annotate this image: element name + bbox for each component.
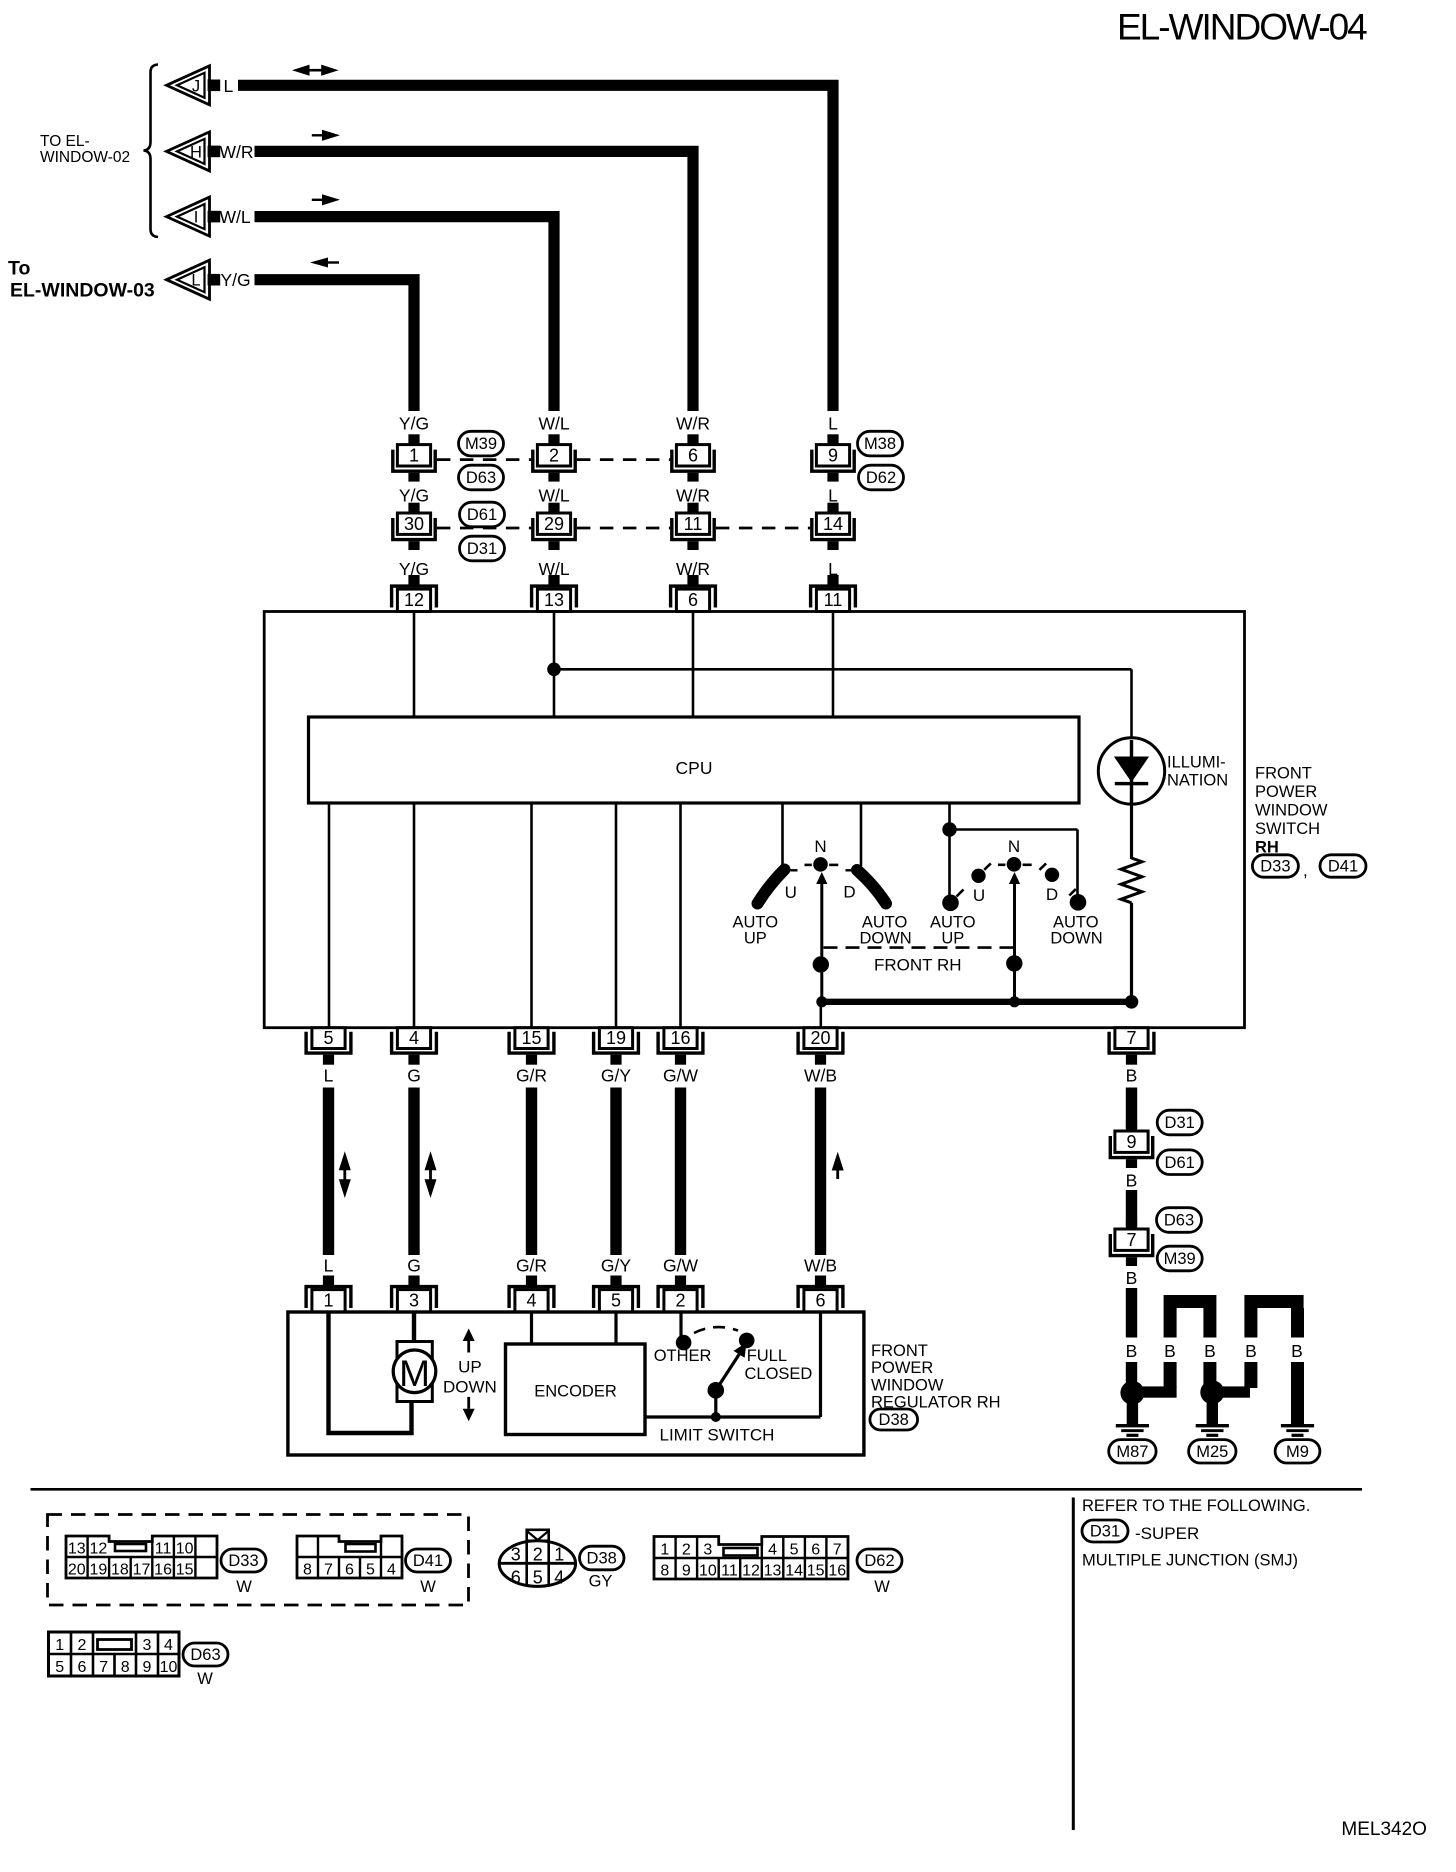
connector pin 6 at switch box top [687, 575, 698, 585]
switch1 blade ticks [791, 869, 798, 871]
wire CPU to pin4 [413, 803, 416, 1028]
double arrow on wire L [292, 65, 310, 76]
connector oval D62 (footer) [857, 1549, 902, 1572]
connector pin 5 at switch box bottom [306, 1032, 351, 1053]
svg-text:EL-WINDOW-04: EL-WINDOW-04 [1117, 7, 1367, 48]
down arrow (motor) [463, 1409, 475, 1422]
svg-text:NATION: NATION [1167, 772, 1228, 790]
svg-text:L: L [224, 76, 234, 96]
connector oval D31 [460, 536, 505, 561]
svg-text:5: 5 [533, 1568, 543, 1588]
wire CPU to switch1 D blade [860, 803, 863, 866]
switch2 U contact [971, 869, 985, 883]
svg-text:N: N [814, 837, 826, 856]
CPU U1 [309, 717, 1080, 803]
svg-text:B: B [1126, 1341, 1138, 1361]
connector oval D63 (B chain) [1157, 1208, 1202, 1233]
svg-text:15: 15 [521, 1028, 541, 1048]
connector triangle I [167, 197, 210, 236]
wiper bus line [819, 999, 1132, 1005]
switch2 wiper arrow [1009, 872, 1020, 884]
svg-text:W/L: W/L [538, 414, 569, 434]
svg-text:6: 6 [345, 1562, 354, 1579]
switch1 N contact [813, 857, 828, 872]
connector pin 9 (D31/D61) [1126, 1121, 1137, 1131]
svg-text:1: 1 [323, 1291, 333, 1311]
switch1 wiper junction [813, 956, 829, 972]
svg-text:UP: UP [458, 1358, 482, 1377]
connector pin 6 row A col 2 [687, 434, 698, 444]
switch2 D contact [1045, 868, 1059, 882]
node bus-wiper1 [816, 996, 827, 1007]
svg-text:UP: UP [744, 930, 767, 948]
svg-text:L: L [324, 1256, 334, 1276]
connector pin 13 at switch box top [548, 575, 559, 585]
wire branch to illumination [554, 668, 1132, 671]
svg-text:9: 9 [682, 1563, 691, 1580]
node bus-wiper2 [1009, 996, 1020, 1007]
svg-text:FRONT: FRONT [1255, 765, 1312, 783]
svg-text:D41: D41 [1328, 858, 1358, 876]
wire L switch to regulator [323, 1088, 334, 1256]
connector oval D38 (footer) [580, 1546, 625, 1570]
wire CPU to pin5 [328, 803, 331, 1028]
limit switch dashed arc [694, 1327, 738, 1333]
wire W/B switch to regulator [815, 1088, 826, 1256]
svg-text:14: 14 [785, 1563, 803, 1580]
svg-text:DOWN: DOWN [443, 1378, 497, 1397]
wire pin11 to CPU [832, 613, 835, 717]
connector pin 15 at switch box bottom [509, 1032, 554, 1053]
wire CPU to pin19 [615, 803, 618, 1028]
svg-text:4: 4 [768, 1542, 777, 1559]
connector oval M38 [858, 431, 903, 456]
svg-text:2: 2 [78, 1637, 87, 1654]
svg-text:M39: M39 [1164, 1250, 1196, 1268]
wire G/W switch to regulator [675, 1088, 686, 1256]
connector D38 (round) [527, 1530, 549, 1541]
svg-text:G/Y: G/Y [601, 1256, 631, 1276]
connector pin 7 at switch box bottom [1109, 1032, 1154, 1053]
connector oval D41 [1320, 855, 1366, 877]
switch2 wiper junction [1006, 955, 1022, 971]
wire G/R switch to regulator [526, 1088, 537, 1256]
encoder box [506, 1344, 646, 1435]
connector pin 2 row A col 1 [548, 434, 559, 444]
connector pin 20 at switch box bottom [798, 1032, 843, 1053]
svg-text:J: J [192, 77, 200, 95]
wire switch2 feed to U [948, 830, 951, 897]
svg-text:6: 6 [78, 1659, 87, 1676]
svg-text:11: 11 [155, 1541, 172, 1558]
node bus-resistor [1125, 995, 1139, 1009]
svg-text:G: G [407, 1066, 421, 1086]
svg-text:D31: D31 [1165, 1114, 1195, 1132]
wire G/Y switch to regulator [610, 1088, 621, 1256]
limit switch wiper [708, 1382, 725, 1399]
connector table D63 [49, 1632, 180, 1676]
ground junction node M25 [1200, 1380, 1224, 1404]
svg-text:OTHER: OTHER [654, 1347, 712, 1365]
dashed connector link row B 30-29 [437, 527, 531, 530]
up arrow (motor) [463, 1329, 475, 1342]
connector pin 6 at regulator top [815, 1276, 826, 1286]
front power window switch RH box [264, 612, 1244, 1028]
svg-text:10: 10 [176, 1541, 194, 1558]
wire W/L from I to column B [255, 217, 555, 411]
arrow on wire W/B [832, 1152, 844, 1171]
wire resistor to bus [1130, 903, 1133, 1003]
svg-text:3: 3 [703, 1542, 712, 1559]
svg-text:30: 30 [404, 514, 424, 534]
svg-text:WINDOW: WINDOW [871, 1376, 944, 1394]
switch2 N contact [1007, 857, 1022, 872]
connector pin 1 at regulator top [323, 1276, 334, 1286]
connector oval D61 [460, 502, 505, 527]
arrow on wire W/L [322, 194, 340, 205]
svg-text:FRONT: FRONT [871, 1342, 928, 1360]
connector oval D33 (footer) [221, 1549, 266, 1572]
switch2 AUTO DOWN contact [1070, 894, 1087, 911]
svg-text:W/L: W/L [538, 485, 569, 505]
svg-text:G/W: G/W [663, 1256, 698, 1276]
connector table D33 [66, 1536, 217, 1578]
svg-text:2: 2 [533, 1545, 543, 1565]
connector pin 11 at switch box top [827, 575, 838, 585]
connector oval M39 (B chain) [1157, 1246, 1202, 1271]
svg-text:14: 14 [823, 514, 843, 534]
svg-text:Y/G: Y/G [399, 485, 429, 505]
svg-text:1: 1 [55, 1637, 64, 1654]
dashed connector link row A 2-6 [577, 458, 670, 461]
svg-text:D33: D33 [228, 1552, 258, 1570]
svg-text:5: 5 [790, 1542, 799, 1559]
arrow on wire W/R [322, 130, 340, 141]
svg-text:6: 6 [811, 1542, 820, 1559]
svg-text:M: M [399, 1353, 430, 1394]
wire CPU to switch1 U blade [781, 803, 784, 866]
svg-text:7: 7 [833, 1542, 842, 1559]
svg-text:4: 4 [409, 1028, 419, 1048]
svg-text:WINDOW: WINDOW [1255, 802, 1328, 820]
connector oval M39 [459, 431, 504, 456]
wire pin1 to motor loop [329, 1313, 412, 1433]
wire LED to resistor [1130, 804, 1133, 859]
connector pin 9 row A col 3 [827, 434, 838, 444]
front power window regulator RH box [288, 1312, 864, 1455]
svg-text:4: 4 [526, 1291, 536, 1311]
wire pin6 to limit switch [819, 1313, 822, 1417]
svg-text:D62: D62 [866, 469, 896, 487]
switch1 U blade arc [758, 870, 785, 904]
svg-text:G/W: G/W [663, 1066, 698, 1086]
svg-text:G: G [407, 1256, 421, 1276]
svg-text:D38: D38 [587, 1550, 617, 1568]
dashed box around D33/D41 [48, 1515, 469, 1606]
svg-text:D61: D61 [1165, 1154, 1195, 1172]
dashed link FRONT RH [824, 946, 1014, 949]
wire pin2 to limit switch OTHER [679, 1313, 682, 1338]
switch2 feed junction [942, 822, 956, 836]
svg-text:5: 5 [611, 1291, 621, 1311]
connector oval D31 (footer) [1082, 1520, 1128, 1542]
svg-text:10: 10 [160, 1659, 178, 1676]
svg-text:MULTIPLE JUNCTION (SMJ): MULTIPLE JUNCTION (SMJ) [1082, 1552, 1298, 1570]
connector table D62 [654, 1537, 848, 1580]
svg-text:B: B [1126, 1268, 1138, 1288]
brace for TO EL-WINDOW-02 [144, 65, 159, 238]
svg-text:D61: D61 [467, 506, 497, 524]
svg-text:WINDOW-02: WINDOW-02 [40, 149, 130, 166]
wire B to D63 connector [1126, 1190, 1137, 1227]
connector oval D38 [870, 1409, 918, 1430]
ground M87 [1116, 1424, 1149, 1427]
svg-text:3: 3 [143, 1637, 152, 1654]
svg-text:11: 11 [824, 590, 843, 610]
svg-text:FRONT RH: FRONT RH [874, 956, 962, 975]
dashed connector link row B 29-11 [577, 527, 670, 530]
svg-text:9: 9 [1126, 1132, 1136, 1152]
connector pin 3 at regulator top [408, 1276, 419, 1286]
svg-text:8: 8 [121, 1659, 130, 1676]
svg-text:20: 20 [810, 1028, 830, 1048]
svg-text:17: 17 [133, 1562, 151, 1579]
svg-text:W/B: W/B [804, 1256, 837, 1276]
svg-text:7: 7 [1126, 1230, 1136, 1250]
wire into LED [1130, 669, 1133, 740]
connector pin 7 (D63/M39) [1126, 1219, 1137, 1229]
svg-text:W: W [236, 1578, 252, 1596]
svg-text:D63: D63 [1164, 1212, 1194, 1230]
svg-text:1: 1 [660, 1542, 669, 1559]
connector triangle L [167, 260, 210, 299]
svg-text:B: B [1126, 1066, 1138, 1086]
svg-text:MEL342O: MEL342O [1341, 1819, 1427, 1840]
svg-text:16: 16 [670, 1028, 690, 1048]
connector pin 11 row B col 2 [687, 503, 698, 513]
svg-text:M25: M25 [1196, 1443, 1228, 1461]
svg-text:D62: D62 [864, 1552, 894, 1570]
svg-text:4: 4 [164, 1637, 173, 1654]
svg-text:D31: D31 [1090, 1523, 1120, 1541]
arrow on wire Y/G [310, 258, 328, 268]
svg-text:B: B [1291, 1341, 1303, 1361]
svg-text:3: 3 [409, 1291, 419, 1311]
wire B pin7 to D31 connector [1126, 1088, 1137, 1129]
svg-text:L: L [828, 414, 838, 434]
connector oval D62 [859, 465, 904, 490]
svg-text:ILLUMI-: ILLUMI- [1167, 754, 1226, 772]
limit switch OTHER contact [676, 1335, 692, 1351]
double arrow on wire G [425, 1151, 437, 1170]
svg-text:7: 7 [99, 1659, 108, 1676]
svg-text:13: 13 [764, 1563, 782, 1580]
switch1 wiper arrow [816, 872, 827, 884]
svg-text:W/R: W/R [676, 414, 710, 434]
svg-text:19: 19 [606, 1028, 626, 1048]
svg-text:W: W [874, 1578, 890, 1596]
svg-text:M87: M87 [1116, 1443, 1148, 1461]
wire switch2 feed to D [950, 828, 1078, 831]
separator line [31, 1488, 1363, 1491]
svg-text:10: 10 [699, 1563, 717, 1580]
connector oval D61 (B chain) [1157, 1150, 1202, 1175]
connector pin 14 row B col 3 [827, 503, 838, 513]
svg-text:13: 13 [68, 1541, 86, 1558]
svg-text:16: 16 [154, 1562, 172, 1579]
svg-text:POWER: POWER [1255, 783, 1317, 801]
footer vertical rule [1072, 1498, 1075, 1831]
wire L from J to column D [238, 85, 833, 411]
svg-text:H: H [190, 143, 202, 161]
LED illumination lamp [1098, 738, 1164, 804]
svg-text:N: N [1008, 837, 1020, 856]
connector pin 29 row B col 1 [548, 503, 559, 513]
svg-text:CPU: CPU [676, 758, 713, 778]
svg-text:9: 9 [828, 445, 838, 465]
svg-text:7: 7 [1126, 1028, 1136, 1048]
svg-text:W/R: W/R [676, 485, 710, 505]
svg-text:9: 9 [143, 1659, 152, 1676]
svg-text:-SUPER: -SUPER [1135, 1524, 1199, 1543]
svg-text:GY: GY [589, 1573, 613, 1591]
connector pin 16 at switch box bottom [658, 1032, 703, 1053]
svg-text:DOWN: DOWN [1050, 930, 1102, 948]
svg-text:6: 6 [511, 1568, 521, 1588]
svg-text:TO EL-: TO EL- [40, 133, 90, 150]
svg-text:D63: D63 [466, 469, 496, 487]
resistor (illumination) [1121, 858, 1142, 903]
connector pin 19 at switch box bottom [594, 1032, 639, 1053]
svg-text:7: 7 [324, 1562, 333, 1579]
connector triangle H [167, 132, 210, 171]
connector table D41 [297, 1536, 402, 1578]
svg-text:8: 8 [660, 1563, 669, 1580]
svg-text:2: 2 [682, 1542, 691, 1559]
svg-text:U: U [973, 886, 985, 905]
connector pin 2 at regulator top [675, 1276, 686, 1286]
svg-text:M39: M39 [465, 435, 497, 453]
svg-text:Y/G: Y/G [221, 270, 251, 290]
svg-text:5: 5 [323, 1028, 333, 1048]
connector oval D41 (footer) [406, 1549, 451, 1572]
svg-text:29: 29 [544, 514, 564, 534]
svg-text:REFER TO THE FOLLOWING.: REFER TO THE FOLLOWING. [1082, 1497, 1310, 1515]
svg-text:DOWN: DOWN [859, 930, 911, 948]
svg-text:ENCODER: ENCODER [534, 1383, 617, 1401]
svg-text:2: 2 [549, 445, 559, 465]
svg-text:B: B [1204, 1341, 1216, 1361]
connector oval D63 (footer) [183, 1643, 228, 1666]
svg-text:L: L [324, 1066, 334, 1086]
svg-text:G/R: G/R [516, 1066, 547, 1086]
wire bus to pin20 [819, 1002, 822, 1028]
svg-text:G/Y: G/Y [601, 1066, 631, 1086]
dashed connector link row A 1-2 [437, 458, 531, 461]
connector triangle J [167, 66, 210, 105]
connector oval D63 [459, 465, 504, 490]
svg-text:11: 11 [721, 1563, 738, 1580]
svg-text:D31: D31 [467, 540, 497, 558]
svg-text:19: 19 [89, 1562, 107, 1579]
svg-text:FULL: FULL [747, 1347, 787, 1365]
svg-text:2: 2 [675, 1291, 685, 1311]
connector pin 4 at regulator top [526, 1276, 537, 1286]
wire CPU to pin16 [679, 803, 682, 1028]
svg-text:18: 18 [111, 1562, 129, 1579]
ground staple 2 [1244, 1295, 1303, 1308]
svg-text:4: 4 [387, 1562, 396, 1579]
svg-text:11: 11 [684, 514, 703, 534]
svg-text:20: 20 [68, 1562, 86, 1579]
svg-text:SWITCH: SWITCH [1255, 820, 1320, 838]
svg-text:W: W [197, 1670, 213, 1688]
wire pin3 to motor [412, 1313, 416, 1342]
svg-text:4: 4 [554, 1568, 564, 1588]
wire B down to ground junction [1126, 1288, 1137, 1338]
svg-text:3: 3 [511, 1545, 521, 1565]
wire pin4 to encoder [530, 1313, 533, 1344]
double arrow on wire L [339, 1151, 351, 1170]
connector pin 4 at switch box bottom [392, 1032, 437, 1053]
wire pin12 to CPU [413, 613, 416, 717]
svg-text:12: 12 [742, 1563, 760, 1580]
svg-text:5: 5 [366, 1562, 375, 1579]
svg-text:POWER: POWER [871, 1359, 933, 1377]
svg-text:12: 12 [404, 590, 424, 610]
svg-text:B: B [1245, 1341, 1257, 1361]
wire G switch to regulator [408, 1088, 419, 1256]
svg-text:6: 6 [815, 1291, 825, 1311]
svg-text:12: 12 [89, 1541, 107, 1558]
svg-text:6: 6 [688, 445, 698, 465]
svg-text:LIMIT SWITCH: LIMIT SWITCH [660, 1426, 775, 1445]
switch2 AUTO UP contact [942, 895, 959, 912]
wire Y/G from L to column A [255, 280, 415, 411]
svg-text:1: 1 [554, 1545, 564, 1565]
limit switch FULL CLOSED contact [739, 1333, 755, 1349]
svg-text:W: W [420, 1578, 436, 1596]
svg-text:W/B: W/B [804, 1066, 837, 1086]
svg-text:15: 15 [807, 1563, 825, 1580]
svg-text:I: I [194, 209, 199, 227]
limit switch common wire [714, 1390, 717, 1417]
connector pin 30 row B col 0 [408, 503, 419, 513]
wire pin5 to encoder [614, 1313, 617, 1344]
wire W/R from H to column C [255, 151, 694, 411]
connector pin 12 at switch box top [408, 575, 419, 585]
svg-text:8: 8 [303, 1562, 312, 1579]
connector oval D31 (B chain) [1157, 1110, 1202, 1135]
connector pin 1 row A col 0 [408, 434, 419, 444]
svg-text:D33: D33 [1260, 858, 1290, 876]
ground M25 [1196, 1424, 1229, 1427]
wire CPU to pin15 [530, 803, 533, 1028]
svg-text:M38: M38 [864, 435, 896, 453]
svg-text:B: B [1164, 1341, 1176, 1361]
svg-text:16: 16 [828, 1563, 846, 1580]
wire pin6 to CPU [692, 613, 695, 717]
svg-text:D: D [1046, 885, 1058, 904]
svg-text:,: , [1303, 861, 1308, 880]
svg-text:1: 1 [409, 445, 419, 465]
svg-text:Y/G: Y/G [399, 414, 429, 434]
svg-text:6: 6 [688, 590, 698, 610]
switch1 D blade arc [857, 870, 886, 904]
ground junction node M87 [1120, 1381, 1144, 1405]
wire pin13 to CPU [553, 613, 556, 717]
connector pin 5 at regulator top [610, 1276, 621, 1286]
